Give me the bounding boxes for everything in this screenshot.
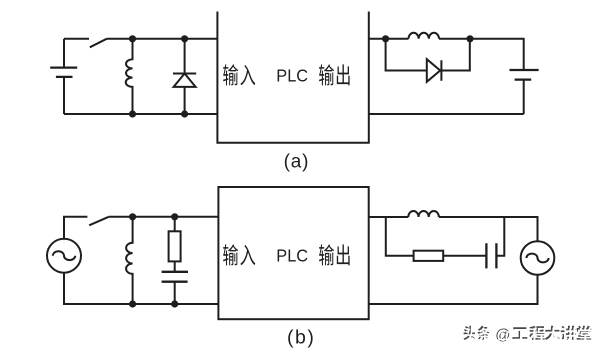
AC source G1: [47, 239, 81, 273]
wire: [64, 217, 87, 239]
wire: [63, 39, 65, 68]
svg-text:(b): (b): [287, 327, 315, 349]
wire: [439, 39, 524, 70]
inductor L1: [126, 39, 133, 114]
label 输出 (a): [319, 64, 350, 85]
label 输入 (b): [223, 244, 255, 265]
svg-text:PLC: PLC: [276, 66, 308, 86]
inductor L2: [409, 33, 440, 39]
resistor R1: [169, 217, 181, 272]
switch S2: [89, 217, 109, 226]
junction node: [129, 300, 136, 307]
label 输出 (b): [319, 244, 350, 265]
resistor R2: [414, 251, 444, 261]
wire: [174, 282, 176, 304]
junction node: [129, 110, 136, 117]
label 输入 (a): [223, 64, 255, 85]
junction node: [181, 35, 188, 42]
switch S1: [90, 39, 107, 48]
junction node: [171, 213, 178, 220]
wire: [386, 217, 414, 256]
junction node: [129, 213, 136, 220]
inductor L4: [408, 211, 439, 217]
junction node: [129, 35, 136, 42]
battery B1: [50, 68, 77, 77]
wire: [63, 77, 65, 114]
wire: [523, 80, 525, 114]
svg-text:PLC: PLC: [276, 246, 308, 266]
PLC box (a): [216, 12, 369, 143]
wire: [107, 38, 218, 40]
junction node: [171, 300, 178, 307]
wire: [64, 273, 218, 304]
diode VD2 branch wire: [386, 39, 427, 71]
watermark 头条 @工程大讲堂: [463, 326, 591, 344]
wire: [443, 255, 486, 257]
capacitor C2: [486, 243, 496, 268]
inductor L3: [126, 217, 133, 304]
svg-text:@: @: [497, 328, 512, 345]
wire: [439, 217, 538, 241]
wire: [64, 38, 89, 40]
wire: [369, 38, 409, 40]
wire: [369, 113, 524, 115]
capacitor C1: [162, 272, 188, 282]
diode VD2: [427, 59, 442, 82]
AC source G2: [521, 241, 555, 275]
junction node: [466, 35, 473, 42]
wire: [441, 39, 469, 71]
wire: [109, 216, 219, 218]
junction node: [181, 110, 188, 117]
battery B2: [510, 70, 539, 80]
wire: [369, 275, 538, 304]
wire: [64, 113, 217, 115]
diode VD1: [173, 39, 196, 114]
watermark emboss highlight: [465, 327, 593, 345]
junction node: [382, 35, 389, 42]
PLC box (b): [218, 187, 368, 319]
svg-text:(a): (a): [284, 151, 310, 172]
wire: [369, 216, 409, 218]
wire: [496, 217, 504, 256]
